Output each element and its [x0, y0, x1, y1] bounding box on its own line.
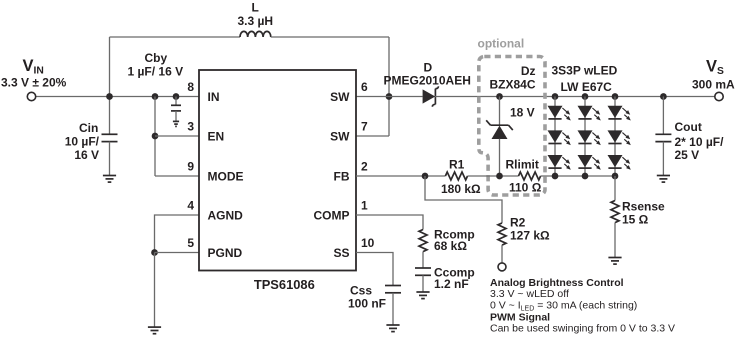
node junction Cby [173, 93, 180, 100]
svg-text:25 V: 25 V [675, 148, 700, 162]
svg-text:SW: SW [330, 130, 350, 144]
LED D2c string2 row3 [578, 155, 601, 170]
svg-text:Analog Brightness Control: Analog Brightness Control [490, 277, 624, 289]
ground below Cby (small) [173, 121, 179, 126]
capacitor Ccomp 1.2 nF [415, 268, 431, 275]
svg-text:SS: SS [333, 246, 349, 260]
svg-text:3.3 V ± 20%: 3.3 V ± 20% [1, 76, 67, 90]
LED D3c string3 row3 [608, 155, 631, 170]
wire EN pin stub [155, 135, 199, 137]
svg-text:optional: optional [478, 37, 525, 51]
wire SW pin 6 stub [356, 96, 389, 98]
svg-text:Cby: Cby [145, 51, 168, 65]
wire Cout to ground [662, 142, 664, 176]
wire LED string3 vertical [614, 97, 616, 177]
wire MODE pin stub [155, 175, 199, 177]
resistor R1 180 kOhm [445, 172, 467, 180]
node junction EN branch [152, 93, 159, 100]
wire R2 branch from FB node [425, 176, 502, 223]
svg-text:R2: R2 [510, 216, 526, 230]
capacitor Css 100 nF [385, 286, 401, 293]
svg-text:2: 2 [361, 160, 368, 174]
LED D1a string1 row1 [548, 106, 571, 121]
svg-text:Cout: Cout [675, 120, 702, 134]
node junction SW [386, 93, 393, 100]
op-amp U1 TPS61086 IC box [199, 70, 356, 271]
svg-text:68 kΩ: 68 kΩ [434, 239, 467, 253]
svg-text:VIN: VIN [23, 57, 44, 77]
LED D3a string3 row1 [608, 106, 631, 121]
terminal VS (open circle) [715, 92, 723, 100]
svg-text:1: 1 [361, 199, 368, 213]
svg-text:127 kΩ: 127 kΩ [510, 229, 550, 243]
svg-text:2* 10 µF/: 2* 10 µF/ [675, 135, 725, 149]
wire SW rail to diode anode [389, 96, 423, 98]
LED D2a string2 row1 [578, 106, 601, 121]
svg-text:8: 8 [187, 80, 194, 94]
wire top rail left of inductor [110, 36, 241, 38]
svg-text:AGND: AGND [208, 209, 244, 223]
resistor Rcomp 68 kOhm [419, 230, 427, 252]
svg-text:180 kΩ: 180 kΩ [441, 182, 481, 196]
inductor L 3.3 uH [240, 31, 271, 37]
node junction PGND [151, 249, 158, 256]
ground below Css [386, 325, 399, 332]
svg-text:Cin: Cin [79, 121, 98, 135]
svg-text:15 Ω: 15 Ω [622, 213, 649, 227]
node junction LED string3 top [612, 93, 619, 100]
node junction LED string1 top [552, 93, 559, 100]
LED D2b string2 row2 [578, 130, 601, 145]
node junction LED string3 bottom [612, 173, 619, 180]
svg-text:6: 6 [361, 80, 368, 94]
LED D3b string3 row2 [608, 130, 631, 145]
svg-text:3.3 µH: 3.3 µH [238, 14, 274, 28]
wire vertical from rail down to SW pins [388, 37, 390, 136]
svg-text:R1: R1 [449, 158, 465, 172]
node junction zener bottom [496, 173, 503, 180]
wire zener top lead [499, 97, 501, 126]
ground below Cout [657, 176, 670, 183]
wire top rail right of inductor [271, 36, 389, 38]
LED D1b string1 row2 [548, 130, 571, 145]
svg-text:PGND: PGND [208, 246, 243, 260]
wire Cin to ground [109, 142, 111, 176]
svg-text:VS: VS [706, 58, 724, 78]
svg-text:EN: EN [208, 130, 225, 144]
svg-text:16 V: 16 V [74, 148, 99, 162]
node junction EN [152, 133, 159, 140]
resistor R2 127 kOhm [498, 223, 506, 245]
ground below Rsense [608, 258, 621, 265]
wire LED string2 vertical [584, 97, 586, 177]
optional dashed box [479, 57, 545, 196]
svg-text:Rsense: Rsense [622, 200, 665, 214]
ground below PGND [148, 327, 161, 334]
wire VIN input horizontal to IN pin [36, 96, 199, 98]
wire R1 to zener node [468, 175, 519, 177]
wire SW pin 7 stub [356, 135, 389, 137]
svg-text:7: 7 [361, 120, 368, 134]
wire PGND pin stub [155, 252, 200, 254]
svg-text:Rlimit: Rlimit [506, 158, 539, 172]
svg-text:10: 10 [361, 236, 375, 250]
svg-text:100 nF: 100 nF [348, 297, 386, 311]
svg-text:TPS61086: TPS61086 [254, 277, 315, 292]
svg-text:9: 9 [187, 160, 194, 174]
node junction VIN/Cin/L [106, 93, 113, 100]
node junction LED string1 bottom [552, 173, 559, 180]
LED D1c string1 row3 [548, 155, 571, 170]
svg-text:1 µF/ 16 V: 1 µF/ 16 V [128, 65, 184, 79]
resistor Rlimit 110 Ohm [519, 172, 541, 180]
svg-text:3S3P wLED: 3S3P wLED [552, 64, 618, 78]
zener diode Dz BZX84C [486, 120, 513, 139]
svg-text:3: 3 [187, 120, 194, 134]
wire FB pin to R1 [356, 175, 445, 177]
wire vertical EN/MODE branch [154, 97, 156, 177]
wire R2 to terminal [501, 245, 503, 263]
node junction FB/R2 [422, 173, 429, 180]
wire Cout top lead [662, 97, 664, 135]
wire zener bottom lead [499, 139, 501, 176]
node junction zener top [496, 93, 503, 100]
wire Ccomp to ground [422, 275, 424, 292]
svg-text:D: D [424, 60, 433, 74]
svg-text:3.3 V ~ wLED off: 3.3 V ~ wLED off [490, 288, 569, 300]
node junction Cout [660, 93, 667, 100]
wire LED string1 vertical [554, 97, 556, 177]
svg-text:18 V: 18 V [510, 106, 535, 120]
wire AGND pin to PGND junction [155, 215, 200, 253]
wire SS pin to Css [356, 253, 393, 286]
svg-text:Css: Css [350, 284, 372, 298]
terminal brightness control (open circle) [498, 263, 506, 271]
svg-text:COMP: COMP [314, 209, 350, 223]
capacitor Cout [655, 134, 671, 141]
svg-text:4: 4 [187, 199, 194, 213]
wire diode cathode to VS rail [435, 96, 715, 98]
wire vertical from VIN node up to inductor rail and down to Cin [109, 37, 111, 134]
wire COMP pin to Rcomp [356, 215, 423, 230]
svg-text:Can be used swinging from 0 V: Can be used swinging from 0 V to 3.3 V [490, 323, 675, 335]
wire PGND to ground [154, 253, 156, 328]
node junction LED string2 top [582, 93, 589, 100]
svg-text:PWM Signal: PWM Signal [490, 311, 550, 323]
svg-text:MODE: MODE [208, 170, 244, 184]
svg-text:FB: FB [334, 170, 350, 184]
ground below Cin [103, 176, 116, 183]
svg-text:1.2 nF: 1.2 nF [434, 277, 469, 291]
capacitor Cby (small bypass) [171, 105, 181, 121]
wire Css to ground [392, 293, 394, 325]
diode D PMEG2010AEH (schottky) [423, 86, 439, 106]
wire LED bottom rail to Rsense [614, 176, 616, 201]
wire Rsense to ground [614, 223, 616, 258]
wire Rcomp to Ccomp [422, 252, 424, 268]
node junction LED string2 bottom [582, 173, 589, 180]
svg-text:LW E67C: LW E67C [561, 80, 613, 94]
svg-text:10 µF/: 10 µF/ [65, 135, 100, 149]
resistor Rsense 15 Ohm [611, 201, 619, 223]
svg-text:IN: IN [208, 90, 220, 104]
svg-text:BZX84C: BZX84C [489, 78, 535, 92]
svg-text:5: 5 [187, 236, 194, 250]
wire Cby stub [175, 97, 177, 106]
svg-text:110 Ω: 110 Ω [509, 181, 542, 195]
terminal VIN (open circle) [27, 92, 35, 100]
svg-text:L: L [252, 1, 259, 15]
capacitor Cin [102, 134, 118, 141]
ground below Ccomp [416, 292, 429, 299]
svg-text:300 mA: 300 mA [692, 78, 735, 92]
svg-text:Dz: Dz [521, 64, 536, 78]
svg-text:SW: SW [330, 90, 350, 104]
wire Rlimit to LED bottom rail [541, 175, 615, 177]
svg-text:PMEG2010AEH: PMEG2010AEH [384, 73, 471, 87]
